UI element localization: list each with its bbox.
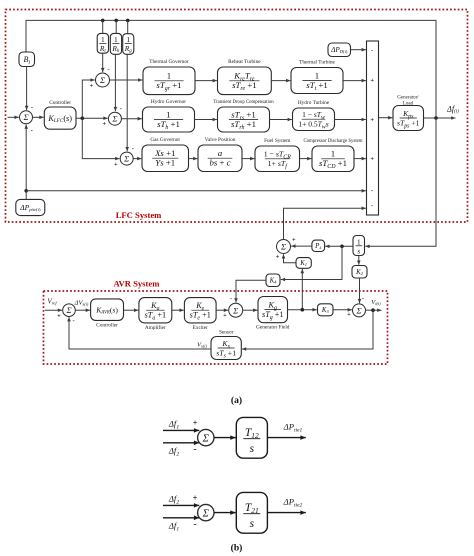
block droop 1/R_g (123, 34, 134, 55)
block Thermal Governor (143, 59, 195, 95)
wire reheat turbine to thermal turbine (271, 79, 290, 83)
svg-text:sTrh +1: sTrh +1 (231, 119, 256, 131)
svg-text:Controller: Controller (96, 322, 118, 328)
summing junction tie power sum (277, 240, 291, 254)
svg-text:Generator Field: Generator Field (256, 325, 290, 331)
wire hydro turbine to main sum (335, 118, 366, 122)
block integrator 1/s (353, 236, 365, 256)
svg-text:1: 1 (167, 71, 171, 81)
wire sensor to AVR sum (67, 317, 211, 349)
svg-text:+: + (370, 116, 374, 123)
block Hydro Turbine (293, 100, 335, 131)
svg-text:Σ: Σ (232, 305, 238, 315)
svg-text:Σ: Σ (111, 114, 117, 124)
svg-text:LFC System: LFC System (116, 210, 162, 220)
summing junction tie sum 2 (198, 504, 214, 520)
svg-text:1: 1 (357, 238, 361, 246)
svg-text:Xs +1: Xs +1 (154, 148, 175, 158)
svg-text:-: - (371, 203, 373, 210)
wire integrator to K2 (357, 256, 361, 265)
wire thermal sum to thermal governor (110, 78, 143, 82)
svg-text:+: + (102, 121, 106, 128)
svg-text:s: s (250, 443, 255, 455)
svg-text:+: + (193, 493, 198, 502)
svg-text:ΔVs(i): ΔVs(i) (74, 300, 89, 307)
svg-text:Compressor Discharge System: Compressor Discharge System (303, 139, 362, 144)
wire 1/R_g to gas sum (125, 54, 129, 151)
block Valve Position (198, 137, 242, 172)
wire tie-line power to main sum (26, 189, 366, 193)
svg-text:-: - (230, 296, 232, 303)
wire delta f_2 into tie sum 1 (163, 441, 199, 446)
wire hydro sum to hydro governor (122, 117, 142, 121)
svg-text:Δf1: Δf1 (168, 521, 179, 533)
block Compressor Discharge System (303, 139, 362, 172)
svg-text:Thermal Turbine: Thermal Turbine (299, 60, 335, 66)
fraction text 1/R_t (99, 35, 107, 54)
wire rail to 1/R_h (115, 20, 117, 33)
summing junction gas governor sum (120, 152, 133, 165)
svg-text:s: s (250, 518, 255, 530)
wire dP_D to main sum (351, 48, 366, 52)
summing junction terminal voltage sum (353, 304, 366, 317)
svg-text:Vt(i): Vt(i) (371, 299, 381, 306)
block Amplifier (139, 298, 172, 331)
svg-text:Δf2: Δf2 (168, 446, 179, 458)
svg-text:-: - (31, 104, 33, 111)
fraction text 1/R_h (111, 35, 120, 54)
svg-text:+: + (370, 77, 374, 84)
wire amplifier to exciter (172, 308, 184, 312)
svg-text:+: + (114, 161, 118, 168)
svg-text:Valve Position: Valve Position (205, 137, 236, 143)
block load disturbance dP_D(i) (328, 43, 351, 57)
block gain K_1 (296, 258, 311, 269)
svg-text:-: - (193, 520, 196, 530)
block gain K_2 (352, 266, 367, 279)
svg-text:-: - (362, 295, 364, 302)
block AVR controller K_AVR(s) (91, 299, 124, 329)
svg-text:Transient Droop Compensation: Transient Droop Compensation (213, 100, 274, 105)
svg-text:Σ: Σ (355, 305, 361, 315)
block Exciter (184, 298, 216, 331)
wire tie-line power to ACE sum (24, 125, 28, 193)
svg-text:-: - (193, 445, 196, 455)
svg-text:Σ: Σ (280, 242, 286, 252)
svg-text:Δf1: Δf1 (168, 419, 179, 431)
svg-text:+: + (89, 82, 93, 89)
wire tie-line block stem (25, 191, 27, 200)
wire integrator to Ps (325, 244, 353, 248)
wire terminal sum to V_t output (366, 308, 382, 312)
svg-text:Δf2: Δf2 (168, 494, 179, 506)
wire delta-f feedback to integrator (365, 118, 436, 248)
svg-text:1: 1 (166, 109, 170, 119)
wire gas governor to valve position (189, 157, 198, 161)
svg-text:Vs(i): Vs(i) (197, 342, 207, 349)
summing junction hydro governor sum (108, 112, 121, 125)
wire Ps to tie sum (291, 244, 312, 248)
wire field sum to generator field (243, 308, 258, 312)
wire thermal governor to reheat turbine (195, 79, 217, 83)
LFC System dashed red boundary (6, 10, 468, 223)
svg-text:1: 1 (101, 35, 105, 44)
svg-text:Thermal Governor: Thermal Governor (149, 59, 189, 65)
wire thermal turbine to main sum (343, 79, 366, 83)
summing junction field sum (229, 303, 243, 317)
svg-text:+: + (292, 236, 296, 243)
svg-text:+: + (276, 254, 280, 261)
block droop 1/R_h (110, 33, 121, 54)
svg-text:Controller: Controller (49, 100, 71, 106)
wire hydro governor to droop compensation (195, 118, 217, 122)
svg-text:Generator/: Generator/ (397, 96, 419, 101)
svg-text:Vref: Vref (47, 298, 57, 306)
block tie-line power dP_tie(i) (16, 199, 45, 215)
svg-text:1: 1 (126, 35, 130, 44)
fraction text 1/R_g (124, 35, 133, 54)
svg-text:a: a (218, 148, 223, 158)
wire controller output to hydro sum (76, 116, 108, 120)
svg-text:Sensor: Sensor (219, 329, 234, 335)
wire generator load to delta-f output (424, 116, 456, 120)
svg-text:-: - (31, 127, 33, 134)
svg-text:sTre +1: sTre +1 (232, 80, 257, 92)
svg-text:+: + (347, 311, 351, 318)
block Fuel System (255, 138, 300, 172)
svg-text:-: - (73, 317, 75, 324)
svg-text:Σ: Σ (99, 75, 105, 85)
wire T21 to dP_tie2 output (267, 510, 305, 515)
svg-text:Σ: Σ (202, 433, 210, 444)
block droop 1/R_t (97, 33, 108, 53)
svg-text:-: - (120, 105, 122, 112)
summing junction ACE sum LFC (20, 111, 33, 124)
wire delta f_2 into tie sum 2 (163, 503, 199, 508)
svg-text:Exciter: Exciter (193, 325, 209, 331)
svg-text:Reheat Turbine: Reheat Turbine (228, 59, 261, 65)
svg-text:ΔPtie2: ΔPtie2 (283, 497, 303, 509)
block gain K_4 (266, 274, 280, 287)
wire K2 to terminal sum (358, 278, 362, 303)
summing junction AVR error sum (63, 304, 76, 317)
svg-text:(a): (a) (231, 395, 242, 406)
block Generator Load K_ps (393, 106, 424, 131)
wire generator field junction to K1 (300, 269, 304, 310)
wire K3 to terminal sum (333, 308, 352, 312)
block Reheat Turbine (218, 59, 272, 95)
wire valve position to fuel system (242, 157, 254, 161)
wire gas sum to gas governor (133, 157, 141, 161)
wire generator field to K3 (288, 308, 317, 312)
wire 1/R_h to hydro sum (114, 54, 118, 111)
wire main sum to generator load (379, 116, 393, 120)
wire AVR controller to amplifier (124, 308, 139, 312)
wire branch down to gas sum (82, 118, 119, 160)
wire ACE sum to controller (33, 115, 44, 119)
wire B_i output to ACE sum (25, 67, 29, 111)
wire tie sum 1 to T12 block (214, 435, 236, 440)
svg-text:Σ: Σ (22, 112, 28, 122)
block Gas Governor (142, 137, 189, 172)
block frequency bias B_i (19, 52, 35, 67)
svg-text:sTt +1: sTt +1 (306, 80, 328, 92)
wire droop compensation to hydro turbine (270, 118, 292, 122)
wire K1 to tie sum (282, 254, 296, 263)
svg-text:AVR System: AVR System (113, 278, 160, 288)
main summing block (367, 41, 379, 215)
wire compressor discharge to main sum (354, 157, 366, 161)
svg-text:ΔPtie1: ΔPtie1 (283, 422, 303, 434)
fraction text 1/s (356, 238, 363, 255)
summing junction thermal governor sum (96, 73, 110, 87)
svg-text:Amplifier: Amplifier (145, 324, 166, 331)
wire branch up to thermal sum (82, 78, 95, 118)
svg-text:1: 1 (114, 35, 118, 44)
wire K4 to field sum (234, 280, 266, 302)
svg-text:-: - (371, 47, 373, 54)
wire terminal voltage to sensor (242, 310, 373, 351)
summing junction tie sum 1 (198, 429, 214, 445)
svg-text:-: - (132, 145, 134, 152)
block Sensor (211, 329, 241, 359)
block controller K_LFC(s) (44, 100, 76, 129)
svg-text:Hydro Governor: Hydro Governor (151, 99, 186, 105)
wire frequency feedback top rail (26, 19, 436, 118)
wire fuel system to compressor discharge (300, 157, 312, 161)
wire delta f_1 into tie sum 1 (163, 428, 199, 433)
wire T12 to dP_tie1 output (267, 435, 305, 440)
wire 1/R_t to thermal sum (101, 53, 105, 72)
svg-text:(b): (b) (231, 542, 243, 553)
svg-text:+: + (370, 155, 374, 162)
svg-text:bs + c: bs + c (209, 158, 230, 168)
wire delta f_1 into tie sum 2 (163, 516, 199, 521)
block Hydro Governor (143, 99, 195, 132)
svg-text:Σ: Σ (123, 154, 129, 164)
svg-text:Fuel System: Fuel System (264, 138, 291, 144)
svg-text:Ys +1: Ys +1 (155, 158, 175, 168)
svg-text:Load: Load (403, 101, 414, 106)
wire left input stub to ACE sum (8, 115, 19, 119)
block T12/s (236, 417, 267, 458)
wire AVR sum to AVR controller (75, 308, 90, 312)
svg-text:-: - (371, 188, 373, 195)
svg-text:Hydro Turbine: Hydro Turbine (298, 100, 330, 106)
wire tie sum 2 to T21 block (214, 510, 236, 515)
block gain K_3 (318, 304, 334, 316)
svg-text:s: s (357, 247, 360, 255)
svg-text:+: + (223, 312, 227, 319)
wire rail to 1/R_g (127, 20, 129, 33)
svg-text:1: 1 (331, 149, 335, 159)
svg-text:+: + (57, 313, 61, 320)
wire rail to 1/R_t (102, 20, 104, 33)
svg-text:sTh +1: sTh +1 (157, 119, 180, 131)
block T21/s (236, 492, 267, 533)
svg-text:Δf(i): Δf(i) (446, 105, 459, 115)
svg-text:Σ: Σ (202, 508, 210, 519)
svg-text:+: + (193, 418, 198, 427)
block Generator Field (256, 297, 290, 331)
wire exciter to field sum (216, 308, 228, 312)
wire integrator junction to K4 (281, 246, 342, 281)
svg-text:1: 1 (315, 70, 319, 80)
wire tie power deviation to main sum (284, 206, 366, 239)
block Thermal Turbine (291, 60, 343, 94)
block Transient Droop Compensation (213, 100, 274, 132)
AVR System dashed red boundary (44, 291, 388, 364)
svg-text:Σ: Σ (65, 305, 71, 315)
wire V_ref to AVR sum (45, 308, 62, 312)
svg-text:-: - (108, 66, 110, 73)
block synchronizing coefficient P_s (312, 240, 325, 251)
svg-text:Gas Governor: Gas Governor (150, 137, 180, 143)
